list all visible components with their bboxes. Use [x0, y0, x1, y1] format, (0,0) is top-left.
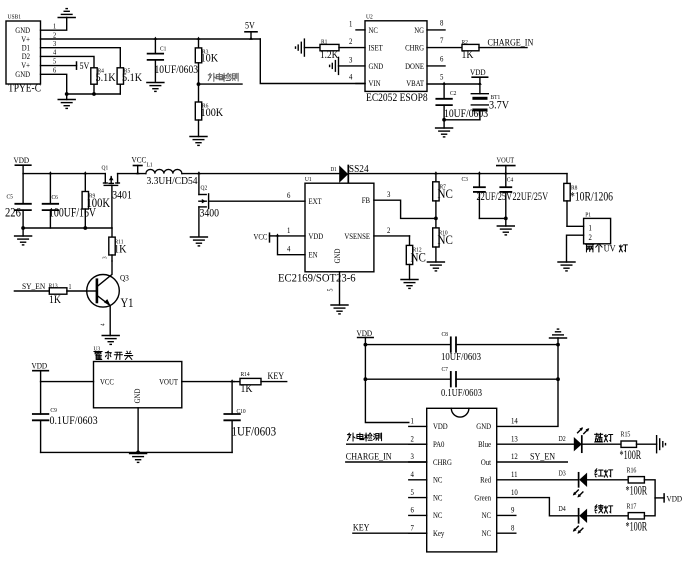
op-chip U1 box — [278, 177, 374, 285]
wire Green to D4 — [497, 498, 579, 516]
svg-text:C8: C8 — [442, 332, 448, 338]
mcu U4 right stubs — [497, 515, 516, 533]
wire ext-detect to PA0 — [347, 443, 427, 445]
svg-text:3: 3 — [411, 452, 415, 462]
svg-text:R14: R14 — [241, 372, 250, 378]
svg-text:Blue: Blue — [478, 439, 491, 449]
svg-text:*10R/1206: *10R/1206 — [570, 190, 613, 204]
svg-text:C7: C7 — [442, 367, 448, 373]
ground (top flipped) at mcu bus — [550, 329, 567, 338]
ground under C5 — [15, 228, 32, 245]
led D3 red — [559, 469, 613, 498]
svg-text:5: 5 — [327, 289, 335, 292]
resistor R16 — [587, 467, 655, 498]
svg-text:NC: NC — [482, 511, 491, 521]
svg-text:C1: C1 — [160, 46, 166, 52]
net label SY_EN at Out — [530, 451, 556, 462]
svg-text:4: 4 — [100, 323, 106, 326]
ground under R12 — [401, 280, 418, 289]
svg-text:U1: U1 — [305, 177, 312, 183]
svg-text:2: 2 — [589, 232, 593, 242]
resistor R4 — [91, 68, 116, 94]
svg-text:SY_EN: SY_EN — [22, 281, 45, 291]
svg-text:D2: D2 — [559, 436, 566, 444]
svg-text:VDD: VDD — [667, 494, 683, 504]
capacitor C10 — [224, 382, 276, 453]
capacitor C4 — [500, 174, 548, 219]
ground under R10 — [427, 262, 444, 271]
svg-text:C2: C2 — [450, 91, 456, 97]
net label wai-dian-jian-ce (external power detect) — [197, 73, 242, 86]
svg-text:1UF/0603: 1UF/0603 — [232, 424, 277, 439]
net label SY_EN — [22, 281, 45, 291]
transistor Q2 (NMOS) — [199, 174, 219, 237]
svg-text:CHARGE_IN: CHARGE_IN — [488, 37, 534, 48]
ground (sideways) at U2 pin3 — [330, 57, 365, 74]
ground (sideways) at R1 left — [296, 39, 305, 56]
ground under C2 — [436, 120, 453, 137]
svg-text:1K: 1K — [114, 243, 126, 256]
wire Q2 gate to U1 EXT — [209, 200, 305, 202]
svg-text:KEY: KEY — [353, 522, 370, 533]
wire VDD to U3 VCC — [41, 381, 94, 383]
svg-text:5.1K: 5.1K — [122, 71, 142, 84]
capacitor C7 — [365, 367, 558, 400]
pin mark 3 at R11 — [102, 256, 108, 259]
capacitor C9 — [33, 382, 98, 453]
svg-text:C4: C4 — [507, 177, 513, 183]
wire bottom rail U3 — [41, 451, 233, 453]
svg-text:VDD: VDD — [357, 328, 373, 338]
net label KEY at R14 — [268, 370, 285, 381]
svg-text:TPYE-C: TPYE-C — [8, 82, 41, 95]
resistor R10 — [433, 218, 453, 262]
svg-text:14: 14 — [511, 416, 518, 426]
wire L1 to node — [182, 171, 201, 174]
power 5V at USB pin5 — [77, 60, 90, 71]
svg-text:1.2K: 1.2K — [320, 49, 339, 61]
label two UV lamps — [586, 243, 628, 254]
svg-text:GND: GND — [476, 422, 491, 432]
mcu U4 pin names and numbers — [411, 416, 519, 538]
svg-text:7: 7 — [440, 36, 444, 46]
resistor R11 — [109, 228, 127, 261]
power 5V at rail — [245, 20, 257, 40]
svg-text:VCC: VCC — [100, 377, 114, 387]
USB1 pin numbers — [53, 22, 57, 75]
svg-text:10: 10 — [511, 487, 518, 497]
capacitor C3 — [462, 174, 513, 219]
net label CHARGE_IN — [488, 37, 534, 48]
wire U3 VOUT — [182, 379, 235, 382]
svg-text:Q2: Q2 — [201, 185, 208, 191]
svg-text:PA0: PA0 — [433, 439, 445, 449]
svg-text:NC: NC — [411, 250, 426, 265]
transistor Q3 (NPN) Y1 — [87, 261, 134, 336]
connector P1 box — [584, 212, 611, 244]
svg-text:13: 13 — [511, 434, 518, 444]
wire VBAT — [427, 82, 482, 85]
svg-text:NC: NC — [482, 528, 491, 538]
svg-text:KEY: KEY — [268, 370, 285, 381]
svg-text:VIN: VIN — [369, 79, 382, 89]
ground under R6 — [190, 137, 207, 146]
svg-text:Q1: Q1 — [102, 165, 109, 171]
capacitor C8 — [365, 332, 558, 364]
ground under P1 — [558, 262, 575, 271]
svg-text:EC2052 ESOP8: EC2052 ESOP8 — [366, 91, 428, 104]
U2 pin8 stub — [427, 29, 445, 31]
svg-text:4: 4 — [287, 244, 291, 254]
power VDD right — [655, 494, 682, 504]
resistor R7 — [433, 174, 453, 219]
wire C2-BT1 bottoms — [442, 118, 480, 122]
svg-text:3400: 3400 — [200, 207, 220, 220]
svg-text:3.3UH/CD54: 3.3UH/CD54 — [147, 175, 198, 187]
wire C3 C4 bottoms — [479, 217, 507, 221]
wire right bus to GND pin — [497, 338, 560, 426]
svg-text:3.7V: 3.7V — [489, 99, 509, 112]
svg-text:0.1UF/0603: 0.1UF/0603 — [441, 387, 482, 399]
resistor R15 — [582, 431, 657, 462]
wire U1 FB — [374, 200, 438, 220]
svg-text:6: 6 — [287, 191, 291, 201]
svg-text:2: 2 — [411, 434, 415, 444]
svg-text:4: 4 — [349, 72, 353, 82]
wire pin6 GND — [41, 74, 67, 94]
ground under C3 C4 — [497, 218, 514, 235]
svg-text:2: 2 — [53, 31, 57, 40]
svg-text:NC: NC — [438, 186, 453, 201]
wire VCC to U1 VDD EN — [278, 236, 306, 255]
svg-text:1K: 1K — [241, 382, 253, 395]
svg-text:10UF/0603: 10UF/0603 — [441, 352, 481, 364]
power VCC at Q1 — [132, 155, 147, 174]
transistor Q1 (PMOS) — [102, 165, 132, 228]
svg-text:11: 11 — [511, 469, 518, 479]
resistor R2 — [427, 39, 527, 61]
ground under U3 — [130, 454, 147, 463]
ground under USB — [58, 94, 75, 108]
svg-text:R1: R1 — [321, 39, 327, 45]
svg-text:EC2169/SOT23-6: EC2169/SOT23-6 — [278, 272, 356, 285]
svg-text:VOUT: VOUT — [497, 156, 515, 165]
ground under Q3 — [102, 336, 119, 345]
resistor R5 — [117, 68, 142, 94]
wire Blue to D2 — [497, 443, 574, 445]
ground under C1 — [147, 83, 164, 92]
svg-text:CHRG: CHRG — [433, 457, 452, 467]
svg-text:SY_EN: SY_EN — [530, 451, 556, 462]
svg-text:U2: U2 — [366, 14, 373, 20]
svg-text:Out: Out — [481, 457, 492, 467]
svg-text:NG: NG — [414, 25, 424, 35]
svg-text:3: 3 — [349, 55, 353, 65]
svg-text:EN: EN — [309, 250, 319, 260]
svg-text:GND: GND — [15, 69, 30, 79]
svg-text:5V: 5V — [80, 60, 90, 71]
svg-text:R13: R13 — [49, 283, 58, 289]
svg-text:1: 1 — [69, 283, 72, 291]
svg-text:NC: NC — [369, 25, 378, 35]
resistor R6 — [195, 84, 223, 136]
svg-text:226: 226 — [5, 206, 21, 220]
power VDD at U3 — [32, 361, 49, 382]
wire pin3 D1 — [41, 48, 121, 68]
svg-text:*100R: *100R — [626, 520, 648, 534]
svg-text:EXT: EXT — [309, 197, 323, 207]
svg-text:6: 6 — [411, 505, 415, 515]
svg-text:GND: GND — [332, 248, 342, 263]
hall-switch U3 box — [94, 346, 182, 408]
svg-text:VSENSE: VSENSE — [344, 231, 370, 241]
svg-text:0.1UF/0603: 0.1UF/0603 — [50, 414, 99, 427]
resistor R1 — [304, 39, 365, 61]
svg-text:NC: NC — [438, 232, 453, 247]
svg-text:1: 1 — [349, 19, 353, 29]
svg-text:2: 2 — [387, 225, 391, 235]
battery BT1 — [471, 84, 509, 120]
U2 pin numbers left — [349, 19, 353, 82]
capacitor C1 — [148, 37, 198, 82]
wire KEY to Key — [353, 532, 427, 534]
net label KEY at mcu — [353, 522, 370, 533]
svg-text:R15: R15 — [621, 431, 631, 439]
svg-text:5: 5 — [53, 57, 57, 66]
svg-text:D4: D4 — [559, 506, 567, 514]
power VDD at mcu — [357, 328, 374, 338]
svg-text:3: 3 — [387, 190, 391, 200]
mcu U4 box — [427, 408, 497, 552]
svg-text:3401: 3401 — [112, 189, 132, 202]
led D4 green — [559, 505, 613, 534]
svg-text:R2: R2 — [462, 39, 468, 45]
led D2 blue — [559, 427, 613, 452]
svg-text:8: 8 — [440, 18, 444, 28]
svg-text:100K: 100K — [201, 106, 224, 119]
U2 pin numbers right — [440, 18, 444, 82]
mcu U4 left stubs — [409, 426, 427, 533]
ground (top, flipped) at USB pin1 — [58, 9, 75, 18]
svg-text:1: 1 — [411, 416, 415, 426]
svg-text:VBAT: VBAT — [406, 79, 424, 89]
svg-text:5: 5 — [411, 487, 415, 497]
svg-text:VDD: VDD — [14, 155, 30, 165]
svg-text:1: 1 — [287, 225, 291, 235]
net label CHARGE_IN at CHRG — [346, 451, 392, 462]
svg-text:Key: Key — [433, 528, 445, 538]
wire R4 R5 bottoms — [65, 92, 121, 96]
wire P1 pin2 to ground — [567, 235, 584, 262]
op-chip U2 box — [365, 14, 428, 104]
svg-text:3: 3 — [53, 40, 57, 49]
svg-text:FB: FB — [362, 196, 370, 206]
wire Q1 drain to L1 — [118, 173, 146, 175]
svg-text:VCC: VCC — [132, 155, 147, 165]
wire U3 GND — [136, 408, 140, 455]
wire Red to D3 — [497, 479, 579, 481]
svg-text:D1: D1 — [331, 167, 337, 173]
svg-text:USB1: USB1 — [8, 14, 21, 20]
svg-text:7: 7 — [411, 523, 415, 533]
svg-text:VOUT: VOUT — [159, 377, 178, 387]
wire CHARGE_IN to CHRG — [346, 461, 427, 463]
wire node to D1 — [199, 173, 341, 175]
svg-text:VDD: VDD — [433, 422, 448, 432]
svg-text:R16: R16 — [627, 467, 638, 475]
capacitor C6 — [43, 174, 97, 228]
power VOUT — [497, 156, 515, 174]
wire caps bottom — [21, 226, 112, 230]
svg-text:CHARGE_IN: CHARGE_IN — [346, 451, 392, 462]
svg-text:2: 2 — [349, 37, 353, 47]
resistor R13 — [14, 283, 86, 306]
capacitor C2 — [436, 84, 488, 120]
U1 pin5 to ground — [331, 272, 348, 314]
svg-text:6: 6 — [53, 66, 57, 75]
svg-text:NC: NC — [433, 493, 442, 503]
wire VDD rail — [23, 171, 105, 174]
svg-text:C5: C5 — [7, 194, 13, 200]
resistor R14 — [234, 372, 286, 395]
resistor R12 — [406, 236, 426, 280]
svg-text:Red: Red — [480, 475, 491, 485]
svg-text:1K: 1K — [49, 293, 61, 306]
svg-text:22UF/25V: 22UF/25V — [513, 190, 549, 203]
svg-text:C3: C3 — [462, 177, 468, 183]
svg-text:C6: C6 — [52, 194, 58, 200]
wire pin1 to ground — [41, 18, 67, 31]
svg-text:GND: GND — [369, 61, 384, 71]
net label ext detect at PA0 — [347, 433, 381, 441]
capacitor C5 — [5, 174, 31, 228]
resistor R3 — [195, 37, 218, 85]
svg-text:5V: 5V — [245, 20, 255, 31]
svg-text:Y1: Y1 — [121, 296, 134, 310]
wire pin5 V+ to 5V — [41, 65, 77, 67]
ground under Q2 — [190, 237, 207, 246]
svg-text:1: 1 — [53, 22, 57, 31]
svg-text:VDD: VDD — [309, 231, 324, 241]
svg-text:*100R: *100R — [620, 448, 642, 462]
wire D1 to VOUT rail — [348, 171, 567, 174]
svg-text:10K: 10K — [201, 52, 219, 65]
wire R8 to P1 pin1 — [567, 225, 584, 227]
wire VDD bus left — [364, 338, 409, 423]
power VDD mid-left — [14, 155, 31, 173]
U2 pin4 stub — [356, 83, 365, 85]
svg-text:9: 9 — [511, 505, 515, 515]
svg-text:8: 8 — [511, 523, 515, 533]
resistor R9 — [82, 174, 111, 228]
power VCC at U1 — [254, 232, 280, 242]
svg-text:L1: L1 — [147, 162, 153, 168]
svg-text:6: 6 — [440, 54, 444, 64]
U1 pin numbers — [287, 190, 391, 292]
svg-text:4: 4 — [411, 469, 415, 479]
svg-text:D3: D3 — [559, 470, 566, 478]
svg-text:5: 5 — [440, 72, 444, 82]
svg-text:UV: UV — [604, 243, 616, 254]
pin mark 4 at Q3 emitter — [100, 323, 106, 326]
svg-text:ISET: ISET — [369, 43, 384, 53]
svg-text:100K: 100K — [87, 196, 111, 210]
diode D1 SS24 — [331, 163, 369, 182]
inductor L1 — [146, 162, 198, 187]
svg-text:NC: NC — [433, 511, 442, 521]
wire pin4 D2 — [41, 56, 95, 67]
svg-text:C10: C10 — [237, 409, 246, 415]
svg-text:Green: Green — [474, 493, 491, 503]
wire U1 VSENSE — [374, 235, 410, 237]
svg-text:GND: GND — [132, 388, 142, 403]
resistor R17 — [587, 498, 655, 534]
svg-text:4: 4 — [53, 48, 57, 57]
svg-text:DONE: DONE — [405, 61, 424, 71]
svg-text:10UF/0603: 10UF/0603 — [155, 63, 199, 76]
svg-text:3: 3 — [102, 256, 108, 259]
svg-text:VDD: VDD — [470, 67, 486, 77]
wire pin2 V+ rail — [41, 39, 366, 84]
svg-text:5.1K: 5.1K — [96, 71, 116, 84]
svg-text:VCC: VCC — [254, 232, 268, 242]
resistor R8 — [564, 174, 613, 227]
USB connector USB1 — [6, 14, 41, 95]
svg-text:CHRG: CHRG — [405, 43, 424, 53]
svg-text:1K: 1K — [462, 48, 474, 61]
svg-text:R17: R17 — [627, 503, 638, 511]
svg-text:12: 12 — [511, 452, 518, 462]
power VDD at VBAT — [470, 67, 488, 84]
U2 pin6 stub — [427, 65, 445, 67]
svg-text:*100R: *100R — [626, 484, 648, 498]
U2 pin1 stub — [356, 29, 365, 31]
svg-text:VDD: VDD — [32, 361, 48, 371]
svg-text:NC: NC — [433, 475, 442, 485]
svg-text:P1: P1 — [585, 212, 591, 218]
wire Out SY_EN — [497, 461, 568, 463]
ground (sideways right) at R15 — [657, 436, 666, 453]
svg-text:Q3: Q3 — [120, 273, 129, 283]
